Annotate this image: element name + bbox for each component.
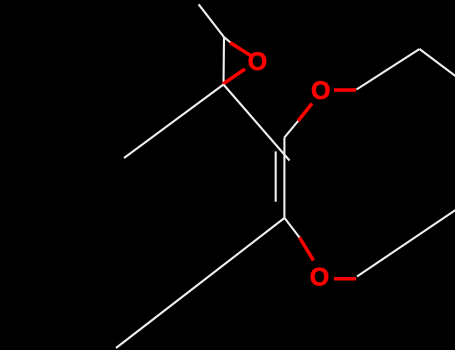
bond C3-ethyl (line C, long straight)	[124, 85, 224, 159]
aryl C=C inner parallel line	[275, 151, 277, 201]
bond C3-aryl (line D)	[224, 85, 290, 161]
bond aryl-O2 white half	[284, 121, 298, 138]
bond aryl long down-left (seg7)	[116, 218, 284, 348]
bond aryl-O3 red half	[300, 238, 314, 261]
bond O2-CH2 red horizontal	[334, 88, 356, 92]
svg-text:O: O	[310, 263, 329, 291]
svg-text:O: O	[248, 48, 267, 76]
bond aryl-O2 red half	[298, 104, 312, 122]
bond aryl-O3 white half	[284, 218, 299, 238]
bond C3-O1 red	[223, 69, 245, 84]
bond methyl-C2 (line A)	[199, 4, 224, 37]
bond C2-O1 red half	[230, 43, 251, 56]
aryl C=C main line (vertical)	[283, 138, 285, 218]
bond CH-CH3 descending off edge (top right)	[420, 49, 455, 78]
svg-text:O: O	[311, 77, 330, 105]
bond CH2 ascending off right edge (bottom right)	[357, 209, 455, 277]
bond CH2-CH ascending (top right)	[357, 49, 420, 90]
bond O3-CH2 red horizontal	[334, 277, 356, 281]
bond C2-C3 oxirane edge (vertical)	[222, 37, 225, 84]
bond C2-O1 white half	[224, 37, 231, 42]
